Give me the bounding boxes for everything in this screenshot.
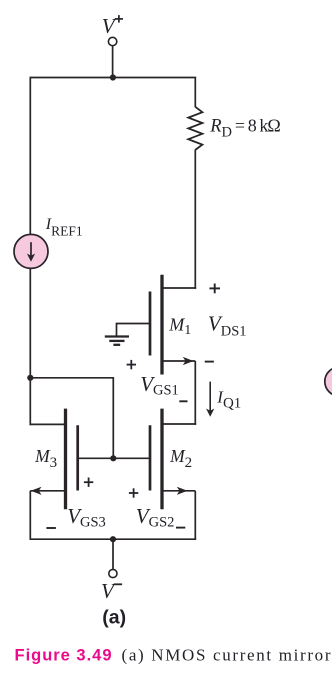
resistor RD (188, 107, 202, 150)
svg-text:V: V (102, 14, 117, 38)
wire M3 drain lead (30, 423, 67, 425)
svg-text:(a): (a) (102, 607, 126, 629)
ground (105, 337, 129, 345)
label VDS1 plus (209, 284, 220, 294)
wire M1 gate lead to ground (117, 324, 150, 337)
node top junction (110, 74, 116, 80)
svg-text:Figure 3.49: Figure 3.49 (15, 647, 112, 665)
M1 gate bar (149, 292, 152, 356)
wire bottom rail (30, 538, 197, 540)
M1 channel bar (160, 275, 163, 375)
M3 source arrow (31, 487, 42, 495)
wire branch to gate node (30, 378, 113, 459)
terminal V- (109, 569, 117, 577)
M3 gate bar (76, 425, 79, 490)
wire left rail upper (29, 78, 31, 236)
wire top rail (30, 77, 197, 79)
wire M2 source lead (161, 490, 195, 492)
M2 channel bar (160, 409, 163, 510)
node gate junction (110, 455, 116, 461)
svg-text:(a) NMOS current mirror: (a) NMOS current mirror (122, 646, 331, 665)
label V+ plus sign (115, 15, 123, 23)
current source partial (right edge) (325, 367, 332, 396)
label VGS2 minus (176, 527, 185, 529)
wire right rail below resistor (194, 150, 196, 289)
label V- minus sign (114, 583, 122, 585)
wire V- stem (112, 539, 114, 569)
arrow IQ1 (206, 382, 214, 417)
label VGS3 minus (46, 527, 56, 529)
node left junction (27, 375, 33, 381)
wire M1 source to M2 drain (194, 361, 196, 425)
wire M1 drain lead (161, 287, 196, 289)
label VGS1 minus (179, 400, 187, 402)
wire M1 source lead (161, 360, 195, 362)
transistor M1 (150, 275, 162, 375)
label VGS1 plus (127, 360, 136, 369)
wire common gate line (79, 457, 150, 459)
M2 source arrow (177, 487, 188, 495)
label VGS2 plus (129, 488, 138, 497)
label VGS3 plus (84, 478, 93, 487)
wire right rail top (194, 78, 196, 108)
label VDS1 minus (205, 361, 214, 363)
node bottom junction (110, 536, 116, 542)
wire M3 source down (29, 491, 31, 539)
M2 gate bar (149, 425, 152, 490)
wire V+ stem (112, 46, 114, 78)
transistor M2 (150, 409, 162, 510)
wire M2 source down (194, 491, 196, 539)
svg-text:V: V (101, 579, 116, 603)
wire M3 source lead (30, 490, 66, 492)
M1 source arrow (183, 357, 194, 365)
wire M2 drain lead (161, 423, 196, 425)
current source IREF1 (14, 234, 48, 268)
wire left rail to M3 drain (29, 378, 31, 425)
wire left rail lower (29, 268, 31, 379)
M3 channel bar (64, 409, 67, 510)
terminal V+ (108, 37, 116, 45)
transistor M3 (66, 409, 78, 510)
svg-text:= 8 kΩ: = 8 kΩ (235, 115, 281, 135)
